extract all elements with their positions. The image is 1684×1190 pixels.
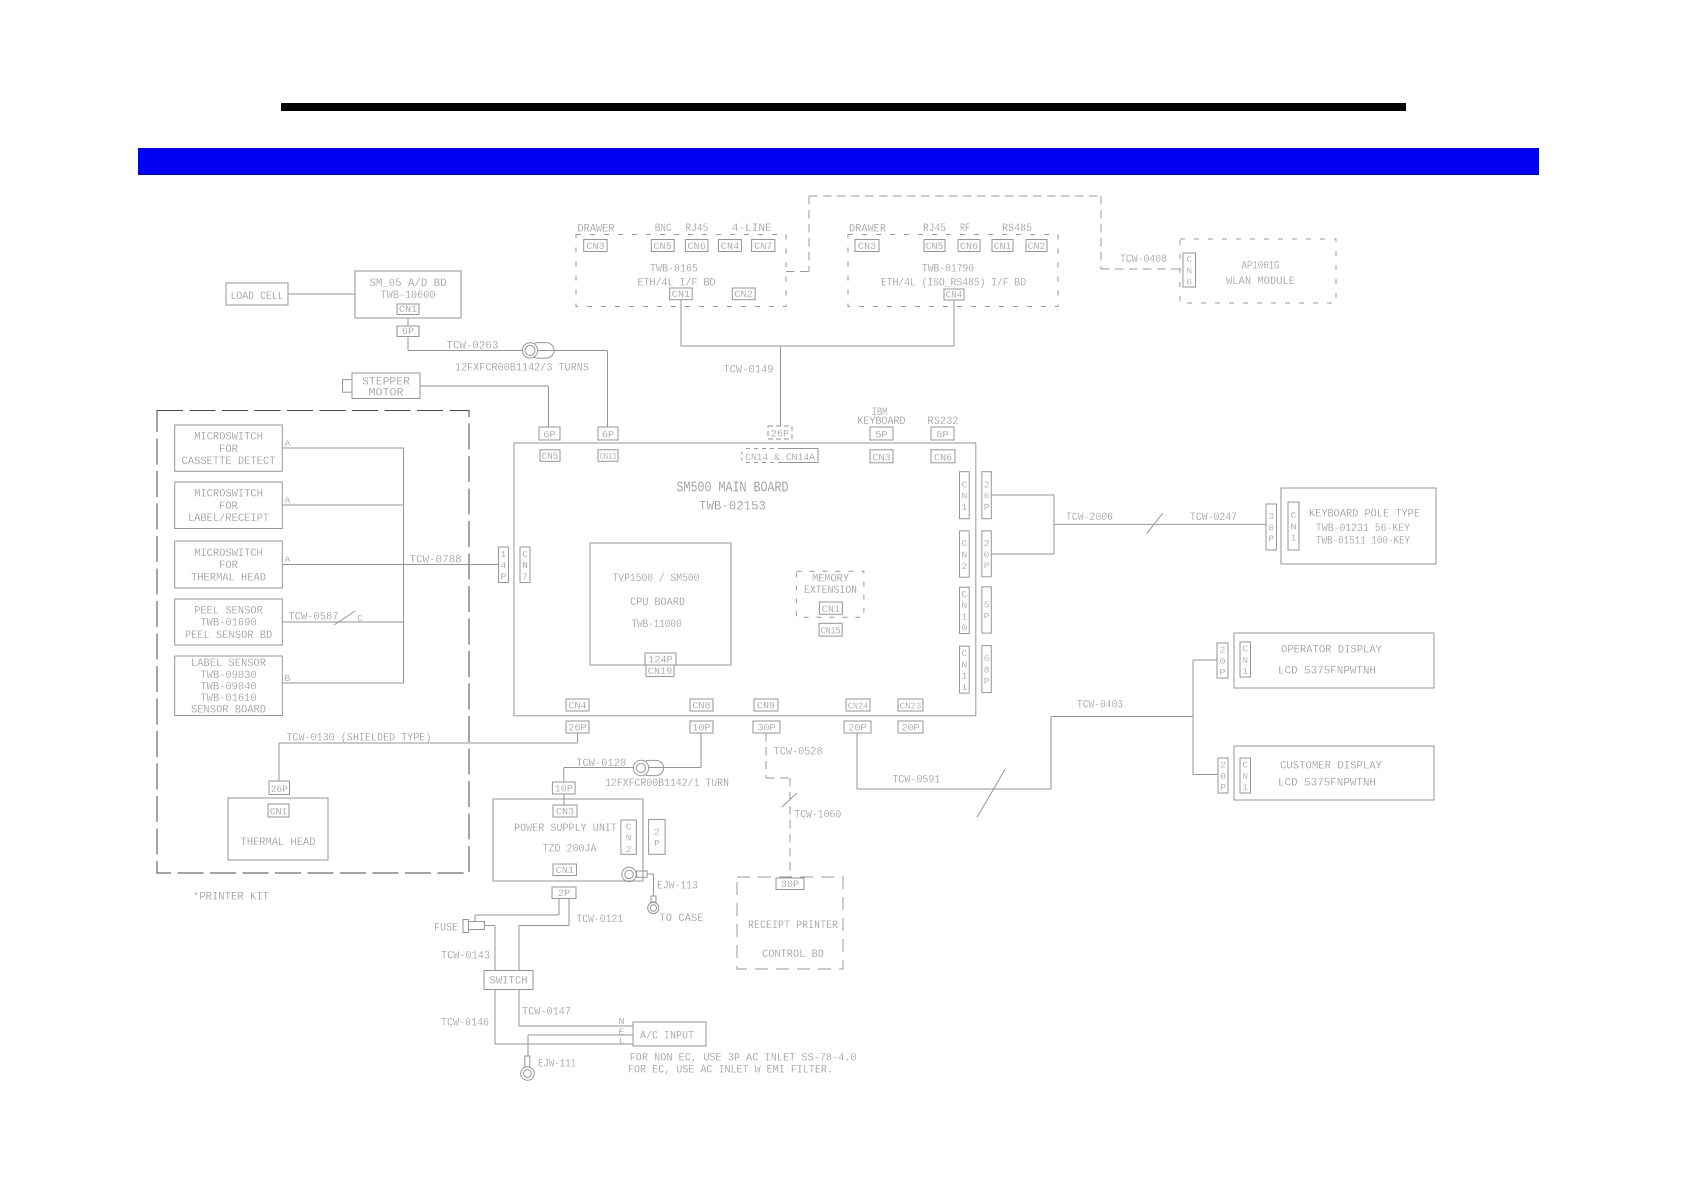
svg-text:CN13: CN13 [600, 451, 617, 462]
svg-text:26P: 26P [771, 430, 789, 441]
svg-text:TCW-0120: TCW-0120 [576, 758, 626, 770]
svg-text:CN4: CN4 [568, 702, 586, 713]
svg-text:SWITCH: SWITCH [490, 976, 528, 988]
svg-text:N: N [1186, 265, 1192, 276]
svg-text:P: P [1220, 667, 1226, 678]
svg-text:CN1: CN1 [822, 605, 840, 616]
svg-text:CN6: CN6 [934, 453, 952, 464]
svg-text:0: 0 [961, 623, 967, 634]
svg-text:TCW-0143: TCW-0143 [441, 951, 490, 963]
svg-text:1: 1 [1291, 533, 1297, 544]
svg-text:MICROSWITCH: MICROSWITCH [194, 548, 263, 560]
svg-text:20P: 20P [901, 724, 919, 735]
svg-text:C: C [961, 538, 967, 549]
svg-text:N: N [961, 659, 967, 670]
svg-text:LCD 5375FNPWTNH: LCD 5375FNPWTNH [1278, 666, 1376, 678]
svg-text:SENSOR BOARD: SENSOR BOARD [191, 705, 266, 717]
svg-text:1: 1 [1242, 666, 1248, 677]
svg-text:TWB-02153: TWB-02153 [699, 500, 766, 514]
svg-text:PEEL SENSOR: PEEL SENSOR [194, 605, 263, 617]
svg-text:TCW-0403: TCW-0403 [1077, 700, 1123, 712]
svg-text:P: P [984, 502, 990, 513]
svg-text:2: 2 [626, 844, 632, 855]
svg-text:TCW-0147: TCW-0147 [522, 1007, 571, 1019]
svg-text:N: N [1242, 771, 1248, 782]
svg-text:P: P [654, 838, 660, 849]
svg-text:POWER SUPPLY UNIT: POWER SUPPLY UNIT [514, 823, 617, 835]
svg-text:TWB-09040: TWB-09040 [200, 681, 256, 693]
svg-text:TWB-09030: TWB-09030 [200, 670, 256, 682]
svg-text:1: 1 [961, 682, 967, 693]
svg-text:2P: 2P [558, 889, 570, 900]
svg-text:*PRINTER KIT: *PRINTER KIT [193, 892, 269, 904]
svg-text:SM_05 A/D BD: SM_05 A/D BD [370, 278, 447, 290]
svg-text:EXTENSION: EXTENSION [804, 585, 857, 597]
svg-text:TCW-0121: TCW-0121 [576, 914, 623, 926]
svg-text:2: 2 [654, 827, 660, 838]
svg-text:20P: 20P [848, 724, 866, 735]
svg-text:C: C [1242, 760, 1248, 771]
svg-text:TZD 200JA: TZD 200JA [543, 844, 598, 856]
svg-text:CN1: CN1 [270, 808, 288, 819]
svg-text:C: C [1186, 254, 1192, 265]
svg-text:CN1: CN1 [672, 290, 690, 301]
svg-text:TCW-0788: TCW-0788 [410, 555, 462, 567]
svg-text:10P: 10P [692, 724, 710, 735]
svg-text:CN6: CN6 [687, 242, 705, 253]
svg-text:N: N [961, 491, 967, 502]
svg-text:CONTROL BD: CONTROL BD [762, 949, 824, 961]
svg-text:A/C INPUT: A/C INPUT [640, 1031, 694, 1043]
svg-text:CN5: CN5 [654, 242, 672, 253]
svg-text:2: 2 [984, 479, 990, 490]
svg-text:TWB-11000: TWB-11000 [632, 619, 682, 631]
svg-text:RECEIPT PRINTER: RECEIPT PRINTER [748, 920, 839, 932]
svg-text:2: 2 [1220, 760, 1226, 771]
svg-text:7: 7 [522, 571, 528, 582]
svg-text:CN1: CN1 [556, 866, 574, 877]
svg-text:LABEL/RECEIPT: LABEL/RECEIPT [188, 513, 269, 525]
svg-text:30P: 30P [757, 724, 775, 735]
svg-text:CN3: CN3 [872, 453, 890, 464]
svg-text:P: P [1268, 534, 1274, 545]
svg-text:P: P [1220, 782, 1226, 793]
svg-text:CN5: CN5 [542, 452, 559, 463]
svg-text:KEYBOARD POLE TYPE: KEYBOARD POLE TYPE [1309, 509, 1420, 521]
svg-text:2: 2 [961, 561, 967, 572]
svg-text:30P: 30P [781, 880, 799, 891]
svg-text:CN5: CN5 [926, 242, 944, 253]
svg-text:TO CASE: TO CASE [660, 913, 704, 925]
svg-text:TCW-2006: TCW-2006 [1066, 512, 1113, 524]
svg-text:3: 3 [1268, 511, 1274, 522]
svg-text:1: 1 [1242, 782, 1248, 793]
svg-text:C: C [357, 613, 363, 624]
svg-text:CN3: CN3 [858, 242, 876, 253]
svg-text:CN23: CN23 [900, 701, 922, 712]
svg-text:1: 1 [961, 611, 967, 622]
svg-text:TCW-0247: TCW-0247 [1190, 512, 1237, 524]
svg-text:CN8: CN8 [692, 702, 710, 713]
svg-text:CN14 & CN14A: CN14 & CN14A [745, 453, 816, 464]
svg-text:TWB-01790: TWB-01790 [922, 264, 974, 276]
svg-text:WLAN MODULE: WLAN MODULE [1226, 276, 1295, 288]
svg-text:2: 2 [1220, 645, 1226, 656]
svg-text:TCW-0146: TCW-0146 [441, 1018, 489, 1030]
svg-text:6: 6 [1186, 277, 1192, 288]
svg-text:B: B [285, 673, 291, 684]
svg-text:0: 0 [1220, 656, 1226, 667]
svg-text:BNC: BNC [655, 223, 672, 235]
svg-text:LCD 5375FNPWTNH: LCD 5375FNPWTNH [1278, 778, 1376, 790]
svg-text:4-LINE: 4-LINE [732, 223, 772, 235]
svg-text:N: N [1291, 521, 1297, 532]
svg-text:N: N [522, 560, 528, 571]
svg-text:FOR NON EC, USE 3P AC INLET SS: FOR NON EC, USE 3P AC INLET SS-78-4.0 [630, 1053, 857, 1065]
svg-text:FOR: FOR [219, 501, 238, 513]
svg-text:TCW-1060: TCW-1060 [794, 810, 841, 822]
svg-text:CN3: CN3 [556, 808, 574, 819]
svg-text:RJ45: RJ45 [923, 223, 946, 235]
svg-text:CN24: CN24 [848, 701, 869, 712]
svg-text:0: 0 [1220, 771, 1226, 782]
svg-text:MICROSWITCH: MICROSWITCH [194, 432, 263, 444]
svg-text:6: 6 [984, 491, 990, 502]
svg-text:FOR EC, USE AC INLET W EMI FIL: FOR EC, USE AC INLET W EMI FILTER. [628, 1065, 833, 1077]
svg-text:5: 5 [984, 600, 990, 611]
svg-text:0: 0 [1268, 522, 1274, 533]
svg-text:MICROSWITCH: MICROSWITCH [194, 489, 263, 501]
svg-text:KEYBOARD: KEYBOARD [858, 416, 906, 428]
svg-text:THERMAL HEAD: THERMAL HEAD [241, 837, 316, 849]
svg-text:TCW-0591: TCW-0591 [892, 775, 940, 787]
svg-text:EJW-111: EJW-111 [538, 1059, 576, 1071]
svg-text:MEMORY: MEMORY [812, 574, 850, 586]
svg-text:5P: 5P [875, 431, 887, 442]
svg-text:N: N [1242, 655, 1248, 666]
svg-text:DRAWER: DRAWER [578, 224, 616, 236]
svg-text:CN9: CN9 [757, 702, 775, 713]
svg-text:N: N [961, 600, 967, 611]
svg-text:FUSE: FUSE [434, 923, 458, 935]
svg-text:PEEL SENSOR BD: PEEL SENSOR BD [185, 630, 273, 642]
svg-text:CPU BOARD: CPU BOARD [630, 597, 685, 609]
svg-text:C: C [961, 648, 967, 659]
svg-text:A: A [285, 495, 291, 506]
svg-text:26P: 26P [568, 724, 586, 735]
svg-text:CN2: CN2 [735, 290, 753, 301]
svg-text:C: C [522, 549, 528, 560]
svg-text:12FXFCR00B1142/3 TURNS: 12FXFCR00B1142/3 TURNS [455, 363, 589, 375]
svg-text:CN7: CN7 [754, 242, 772, 253]
svg-text:CN15: CN15 [821, 627, 841, 638]
svg-text:26P: 26P [271, 785, 288, 796]
svg-text:LABEL SENSOR: LABEL SENSOR [191, 658, 267, 670]
svg-text:A: A [285, 438, 291, 449]
svg-text:C: C [961, 589, 967, 600]
svg-text:CN19: CN19 [648, 667, 672, 678]
svg-text:C: C [961, 479, 967, 490]
svg-text:RJ45: RJ45 [685, 223, 708, 235]
svg-text:CN4: CN4 [946, 291, 963, 302]
svg-text:L: L [619, 1036, 625, 1047]
svg-text:TWB-01610: TWB-01610 [200, 693, 256, 705]
svg-text:CUSTOMER DISPLAY: CUSTOMER DISPLAY [1280, 761, 1383, 773]
svg-text:TCW-0149: TCW-0149 [723, 365, 773, 377]
svg-text:RS232: RS232 [928, 416, 959, 428]
svg-text:2: 2 [984, 538, 990, 549]
svg-text:P: P [984, 611, 990, 622]
svg-text:TCW-0528: TCW-0528 [774, 747, 823, 759]
svg-text:P: P [984, 561, 990, 572]
svg-text:FOR: FOR [219, 444, 238, 456]
svg-text:A: A [285, 554, 291, 565]
svg-text:1: 1 [501, 549, 507, 560]
svg-text:CN3: CN3 [586, 242, 604, 253]
svg-text:AP1001G: AP1001G [1242, 261, 1280, 273]
svg-text:FOR: FOR [219, 560, 238, 572]
svg-text:CN6: CN6 [960, 242, 978, 253]
svg-text:CN2: CN2 [1028, 242, 1046, 253]
svg-text:1: 1 [961, 671, 967, 682]
svg-text:TWB-01690: TWB-01690 [200, 618, 256, 630]
svg-text:C: C [1291, 510, 1297, 521]
svg-text:TWB-01511 100-KEY: TWB-01511 100-KEY [1316, 536, 1411, 548]
svg-text:6P: 6P [402, 327, 414, 338]
svg-text:6: 6 [984, 653, 990, 664]
svg-text:8: 8 [984, 664, 990, 675]
svg-text:ETH/4L (ISO_RS485) I/F BD: ETH/4L (ISO_RS485) I/F BD [881, 278, 1026, 290]
svg-text:6P: 6P [543, 431, 555, 442]
svg-text:CASSETTE DETECT: CASSETTE DETECT [182, 456, 276, 468]
svg-text:C: C [1242, 644, 1248, 655]
svg-text:OPERATOR DISPLAY: OPERATOR DISPLAY [1281, 645, 1383, 657]
svg-text:N: N [961, 549, 967, 560]
svg-text:TWB-0165: TWB-0165 [650, 264, 698, 276]
svg-text:THERMAL HEAD: THERMAL HEAD [191, 572, 266, 584]
svg-text:0: 0 [984, 549, 990, 560]
svg-text:TCW-0587: TCW-0587 [289, 612, 339, 624]
svg-text:CN1: CN1 [994, 242, 1012, 253]
svg-text:N: N [626, 833, 632, 844]
svg-text:4: 4 [501, 560, 507, 571]
svg-text:EJW-113: EJW-113 [657, 881, 698, 893]
svg-text:N: N [619, 1016, 625, 1027]
svg-text:CN4: CN4 [721, 242, 739, 253]
svg-text:TCW-0408: TCW-0408 [1120, 254, 1167, 266]
svg-text:1: 1 [961, 502, 967, 513]
svg-text:TCW-0263: TCW-0263 [446, 341, 498, 353]
svg-text:DRAWER: DRAWER [849, 224, 887, 236]
svg-text:10P: 10P [555, 785, 573, 796]
svg-text:12FXFCR00B1142/1 TURN: 12FXFCR00B1142/1 TURN [605, 778, 729, 790]
svg-text:MOTOR: MOTOR [369, 388, 405, 400]
svg-text:8P: 8P [936, 431, 948, 442]
svg-text:C: C [626, 821, 632, 832]
svg-text:P: P [501, 571, 507, 582]
svg-text:RS485: RS485 [1002, 223, 1032, 235]
svg-text:P: P [984, 676, 990, 687]
svg-text:LOAD CELL: LOAD CELL [231, 291, 284, 303]
svg-text:TWB-10600: TWB-10600 [381, 290, 436, 302]
svg-text:6P: 6P [602, 431, 614, 442]
svg-text:SM500 MAIN BOARD: SM500 MAIN BOARD [677, 481, 789, 497]
svg-text:TWB-01231 56-KEY: TWB-01231 56-KEY [1316, 523, 1411, 535]
svg-text:TVP1500 / SM500: TVP1500 / SM500 [613, 573, 700, 585]
svg-text:CN1: CN1 [399, 305, 417, 316]
svg-text:RF: RF [960, 223, 970, 235]
